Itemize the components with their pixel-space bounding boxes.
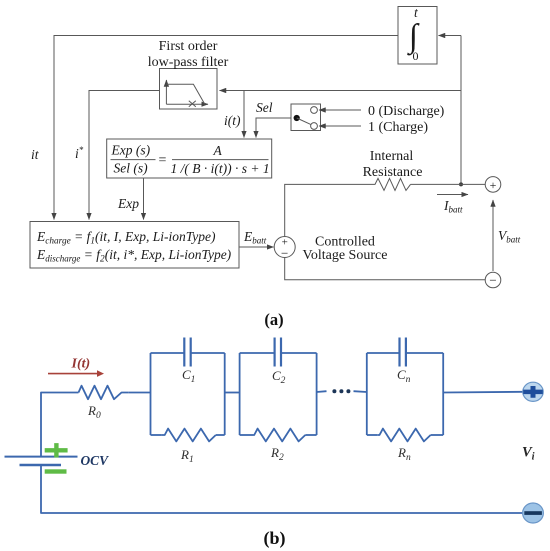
svg-text:Voltage Source: Voltage Source <box>303 248 388 263</box>
filter icon response curve <box>166 84 204 104</box>
wire: resistor to + terminal <box>411 183 486 185</box>
- terminal Vi <box>523 503 544 523</box>
transfer function box Exp(s)/Sel(s) <box>107 139 272 178</box>
svg-text:C2: C2 <box>272 368 286 386</box>
svg-text:(a): (a) <box>264 310 283 329</box>
integrator U1 box <box>398 7 437 65</box>
capacitor C1 top branch <box>151 352 185 354</box>
+ terminal of battery model <box>485 177 501 193</box>
svg-text:t: t <box>414 5 419 20</box>
wire: block n to + terminal <box>443 391 523 394</box>
wire: 1 (Charge) input <box>319 125 361 127</box>
switch throw contact 0 <box>311 107 318 114</box>
switch wiper <box>297 118 311 125</box>
RC block n frame <box>366 353 368 435</box>
svg-text:Echarge = f1(it, I, Exp, Li-io: Echarge = f1(it, I, Exp, Li-ionType) <box>36 229 216 247</box>
battery - mark <box>45 469 67 473</box>
svg-text:R1: R1 <box>180 447 194 465</box>
wire: it feedback path from integrator output to Echarge block <box>54 36 398 220</box>
wire: block1 to block2 <box>225 392 240 394</box>
switch throw contact 1 <box>311 123 318 130</box>
svg-text:Ebatt: Ebatt <box>243 229 267 246</box>
svg-text:Edischarge = f2(it, i*, Exp, L: Edischarge = f2(it, i*, Exp, Li-ionType) <box>36 247 232 265</box>
wire: 0 (Discharge) input <box>319 109 361 111</box>
wire: Sel from switch to transfer-function box <box>256 118 291 138</box>
- terminal of battery model <box>485 272 501 288</box>
wire: stub to block n <box>354 390 367 393</box>
svg-text:0 (Discharge): 0 (Discharge) <box>368 104 445 119</box>
svg-text:low-pass filter: low-pass filter <box>148 55 229 70</box>
resistor Rn bottom branch <box>367 434 378 436</box>
wire: block2 stub <box>317 390 327 393</box>
svg-text:Internal: Internal <box>370 149 414 164</box>
fraction bar left <box>111 159 156 161</box>
Echarge/Edischarge function block <box>30 222 239 269</box>
capacitor Cn top branch <box>367 352 399 354</box>
wire: i(t) branch down into transfer-function box <box>243 91 245 138</box>
low-pass filter block <box>160 69 218 110</box>
Vbatt arrow <box>492 200 494 271</box>
svg-text:Rn: Rn <box>397 445 411 463</box>
svg-text:I(t): I(t) <box>71 357 91 372</box>
RC block 2 frame <box>239 353 241 435</box>
wire: i(t) bus into low-pass filter <box>220 90 462 92</box>
svg-text:it: it <box>31 147 40 162</box>
wire: R0 to RC block 1 <box>129 392 151 394</box>
battery OCV short plate <box>20 464 62 466</box>
svg-text:A: A <box>213 143 223 158</box>
svg-text:i*: i* <box>75 145 84 161</box>
wire: source bottom to - terminal <box>285 258 486 280</box>
resistor internal resistance <box>373 178 411 190</box>
svg-text:+: + <box>490 178 497 192</box>
svg-text:OCV: OCV <box>81 453 110 468</box>
svg-text:R0: R0 <box>87 403 101 421</box>
wire: vertical feedback bus x=461 <box>460 36 462 185</box>
svg-text:Vbatt: Vbatt <box>498 228 521 245</box>
RC block 1 frame <box>150 353 152 435</box>
wire: source top to internal resistance <box>285 184 373 236</box>
ellipsis dots <box>332 389 336 393</box>
wire: Exp output to Echarge block <box>143 178 145 220</box>
wire: into integrator right input <box>439 35 462 37</box>
svg-text:Cn: Cn <box>397 367 411 385</box>
svg-text:−: − <box>489 273 496 288</box>
capacitor C2 top branch <box>240 352 275 354</box>
switch pole dot <box>294 115 300 121</box>
svg-text:Exp: Exp <box>117 196 139 211</box>
svg-text:1 (Charge): 1 (Charge) <box>368 120 428 135</box>
resistor R1 bottom branch <box>151 434 162 436</box>
svg-text:i(t): i(t) <box>224 113 241 128</box>
resistor R2 bottom branch <box>240 434 253 436</box>
switch SW1 box <box>291 104 321 131</box>
filter icon x mark <box>189 101 196 107</box>
svg-text:Ibatt: Ibatt <box>443 198 463 215</box>
fraction bar right <box>172 159 269 161</box>
controlled voltage source E1 <box>274 237 295 258</box>
battery OCV long plate <box>5 456 78 458</box>
svg-text:Sel: Sel <box>256 100 273 115</box>
svg-text:(b): (b) <box>264 528 286 549</box>
svg-text:Sel (s): Sel (s) <box>114 161 149 176</box>
Ibatt arrow <box>437 194 468 196</box>
current arrow <box>48 373 98 375</box>
filter icon axes <box>165 80 167 104</box>
wire: filter output i* to Echarge block <box>89 91 160 220</box>
svg-text:Vi: Vi <box>522 445 535 463</box>
wire: Ebatt arrow to controlled source <box>239 246 274 248</box>
svg-text:C1: C1 <box>182 367 195 385</box>
svg-text:First order: First order <box>159 39 218 54</box>
svg-text:=: = <box>159 153 167 168</box>
svg-text:0: 0 <box>413 49 419 63</box>
wire: battery top to R0 <box>41 393 79 457</box>
svg-text:R2: R2 <box>270 445 284 463</box>
wire: bottom rail <box>41 465 523 513</box>
svg-text:Resistance: Resistance <box>363 165 423 180</box>
svg-text:1 /( B · i(t)) · s + 1: 1 /( B · i(t)) · s + 1 <box>171 161 270 176</box>
svg-text:Exp (s): Exp (s) <box>111 143 151 158</box>
resistor R0 <box>79 386 129 400</box>
battery + mark <box>45 443 68 457</box>
+ terminal Vi <box>523 382 543 401</box>
junction at Ibatt node <box>459 182 463 186</box>
